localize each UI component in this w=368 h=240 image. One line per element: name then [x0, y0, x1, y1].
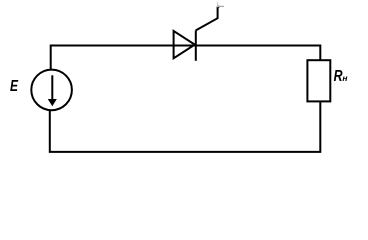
thyristor gate lead [196, 6, 220, 30]
resistor Rн box [307, 60, 330, 101]
svg-text:н: н [342, 73, 347, 83]
label E [10, 77, 19, 95]
svg-text:R: R [334, 67, 343, 85]
wire bottom loop: source bottom to resistor bottom [50, 101, 321, 151]
thyristor cathode bar [195, 30, 197, 60]
source arrow shaft [51, 75, 53, 100]
label R [334, 67, 343, 85]
svg-text:E: E [10, 77, 19, 95]
source arrow head [48, 99, 57, 106]
wire top loop: source top to thyristor to resistor top [51, 46, 321, 70]
source E circle [31, 70, 72, 111]
thyristor VS triangle [174, 31, 195, 58]
thyristor gate tip faint [217, 2, 219, 7]
